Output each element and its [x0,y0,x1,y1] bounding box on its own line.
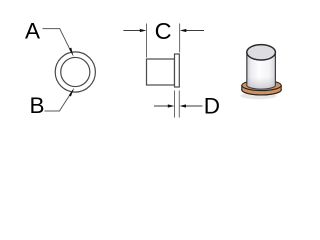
dimension C line left [123,30,141,32]
dimension D arrow right [180,104,187,107]
dimension C arrow right [180,29,187,32]
svg-text:B: B [30,93,45,118]
3d view: cylinder top ellipse [247,45,276,60]
leader A arrowhead [69,48,74,57]
3d view: cylinder body [247,52,276,89]
side view: body rectangle [147,59,175,85]
svg-text:D: D [204,93,220,118]
dimension D line left [154,105,169,107]
svg-text:A: A [25,18,40,43]
leader B arrowhead [69,88,75,97]
dimension D extension line left [174,91,176,118]
dimension C line right [185,30,204,32]
3d view: flange bottom ellipse [242,85,281,95]
svg-text:C: C [155,18,172,44]
dimension C extension line left [146,24,148,58]
dimension D extension line right [178,91,180,118]
side view: flange rectangle [175,54,180,87]
front view: inner circle (bore) [61,57,90,86]
3d view: soft shadow [241,92,277,99]
leader A wire [43,29,72,54]
dimension C extension line right [179,24,181,53]
leader B wire [45,90,74,111]
3d view: flange top ellipse [242,80,281,90]
3d view: cylinder base shading [247,77,276,89]
front view: outer circle (flange OD) [55,52,95,92]
dimension D line right [185,105,203,107]
dimension D arrow left [168,104,175,107]
dimension C arrow left [140,29,147,32]
3d view: flange side band [242,85,281,94]
